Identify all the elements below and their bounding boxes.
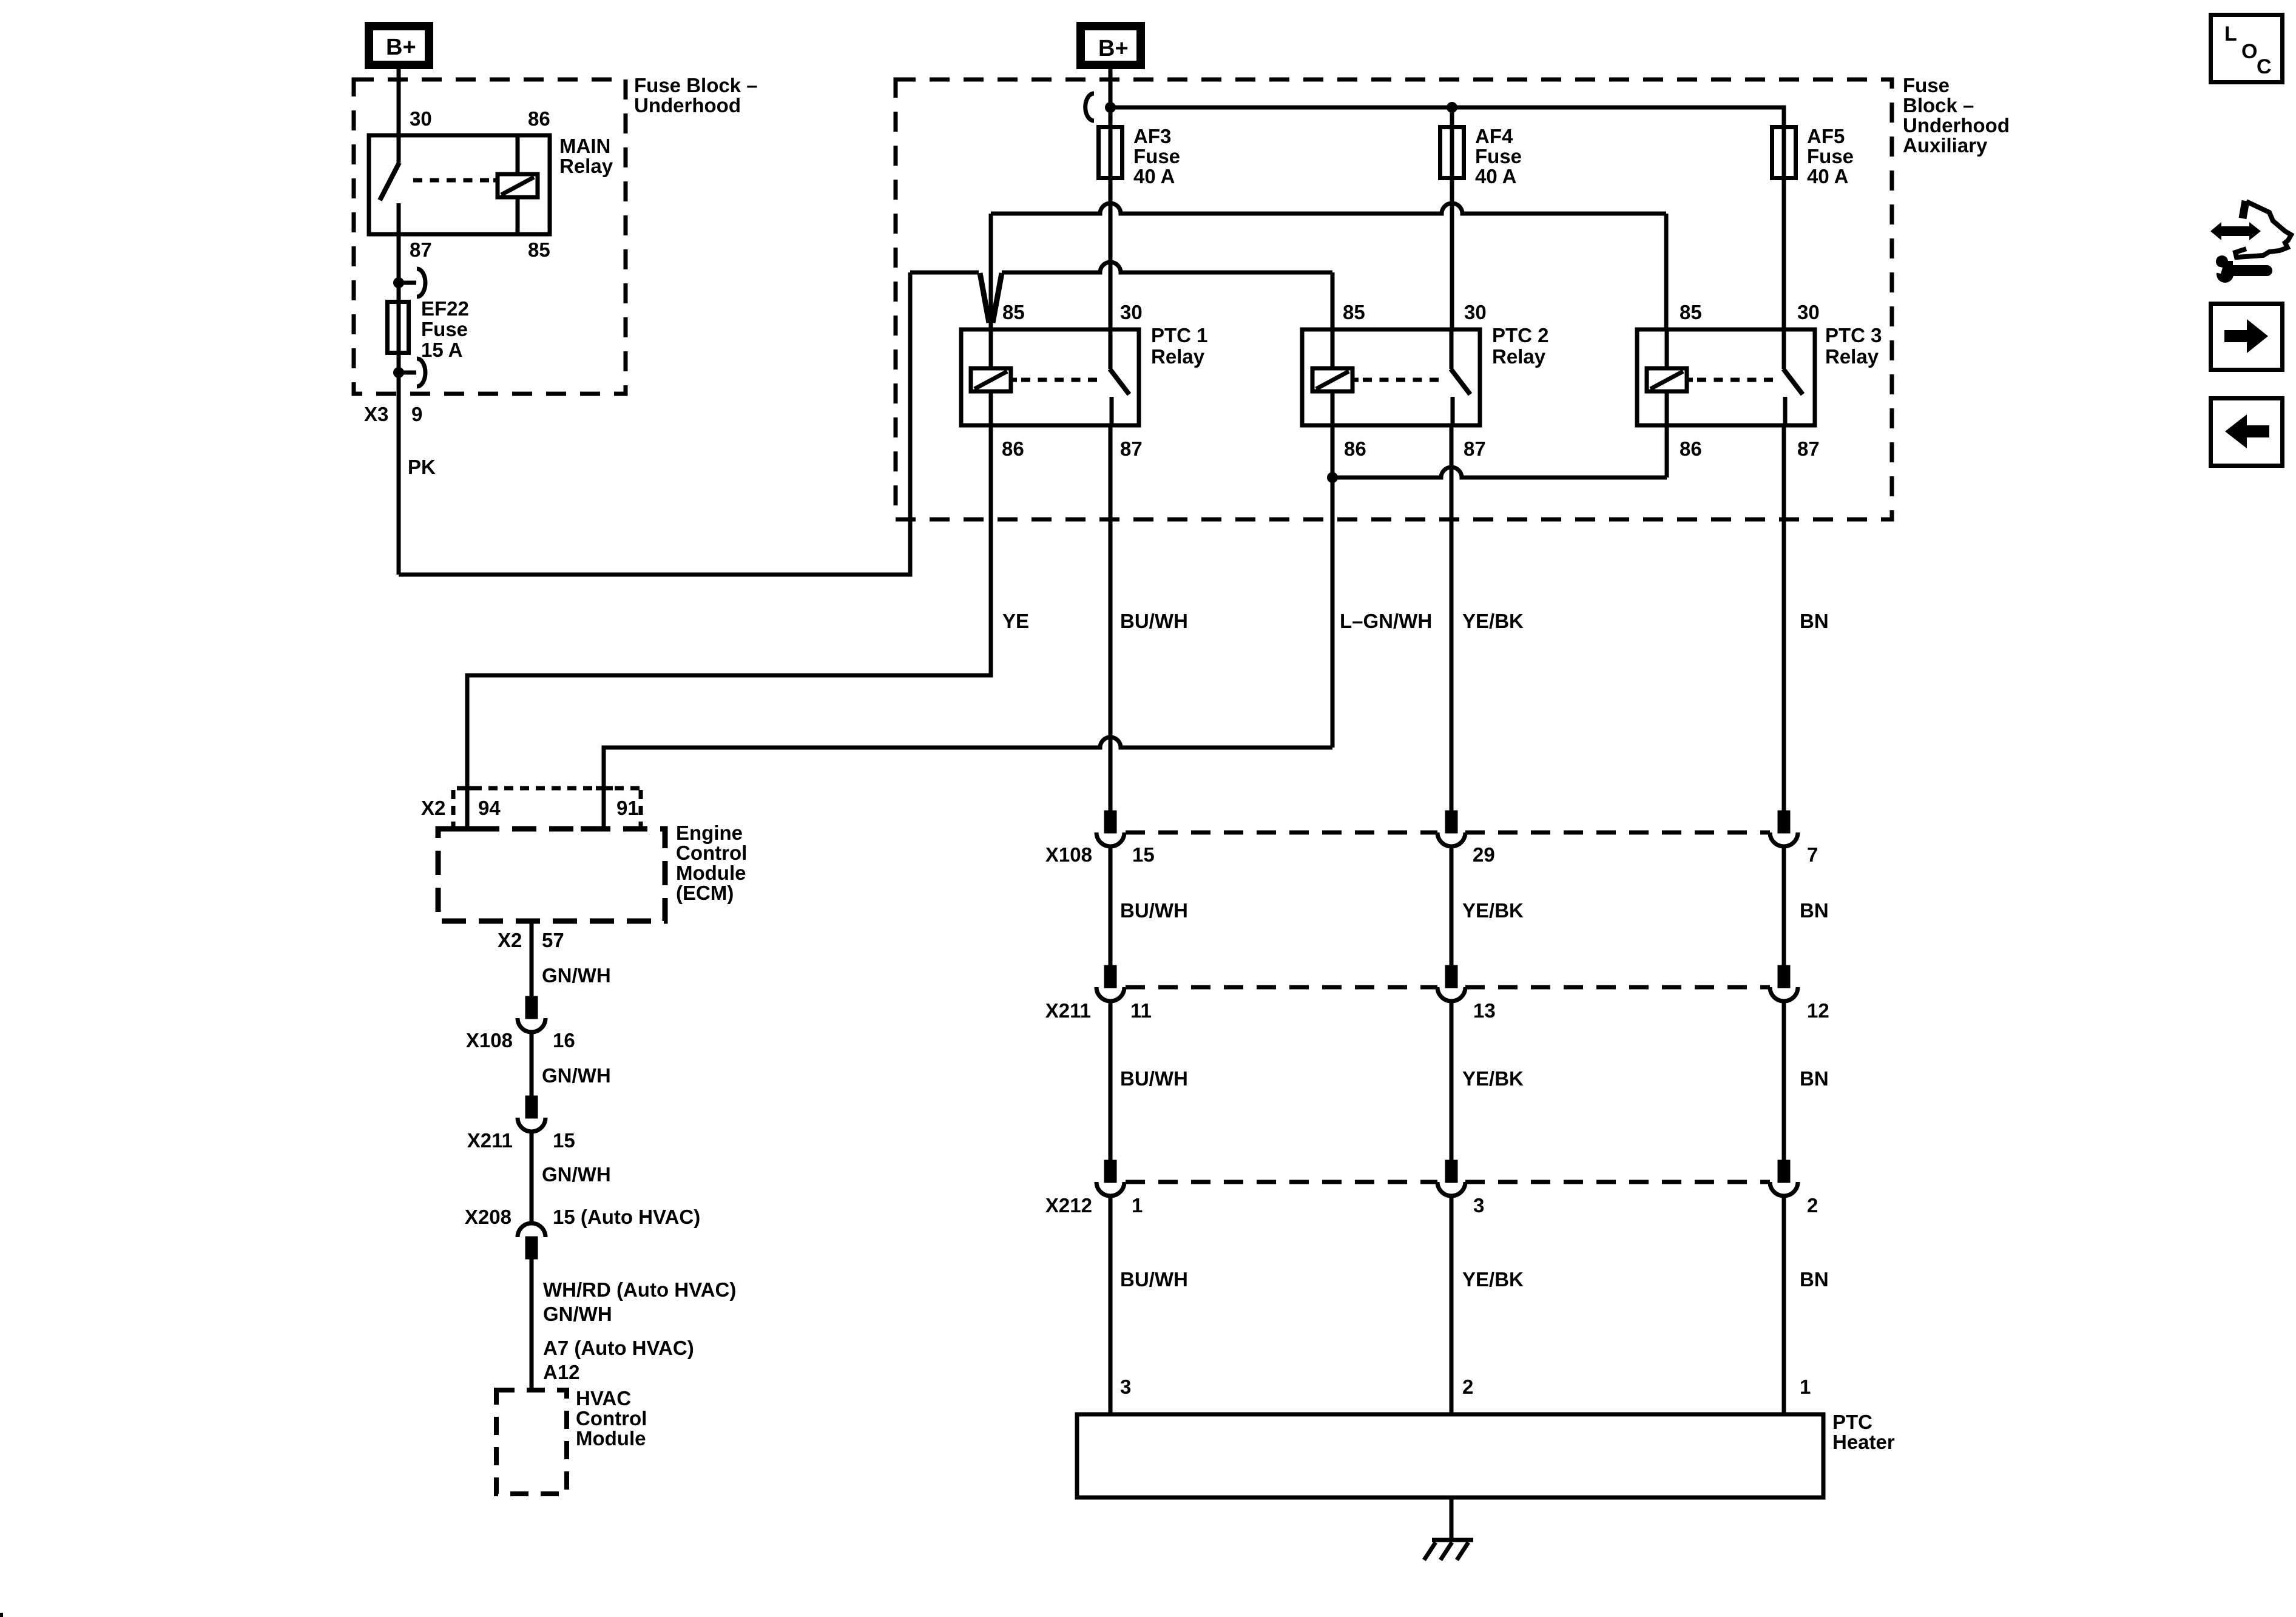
component-location icon: wrench notch — [2206, 264, 2223, 274]
svg-text:GN/WH: GN/WH — [542, 1064, 611, 1087]
pin 91 terminal ticks — [581, 788, 613, 829]
svg-text:B+: B+ — [1098, 36, 1129, 61]
svg-text:30: 30 — [1797, 301, 1820, 323]
svg-text:15 (Auto HVAC): 15 (Auto HVAC) — [553, 1206, 700, 1228]
svg-text:Auxiliary: Auxiliary — [1903, 134, 1988, 157]
svg-text:1: 1 — [1132, 1194, 1143, 1217]
svg-text:(ECM): (ECM) — [676, 882, 734, 904]
svg-text:PTC 1: PTC 1 — [1151, 324, 1208, 346]
relay PTC 2 (K3) switch — [1451, 329, 1470, 425]
svg-text:85: 85 — [528, 238, 550, 261]
component-location icon: part outline — [2235, 201, 2291, 257]
svg-text:BN: BN — [1800, 1268, 1829, 1291]
wire AF4 tap down — [1450, 107, 1454, 329]
Engine Control Module dashed box — [438, 829, 665, 921]
svg-text:40 A: 40 A — [1133, 165, 1175, 187]
wire BU/WH: PTC1-87 down to heater — [1109, 425, 1113, 813]
wire YE/BK: PTC2-87 down to heater — [1450, 425, 1454, 813]
fuse AF4 40A — [1440, 127, 1464, 178]
svg-text:9: 9 — [411, 403, 422, 425]
wire B+ to MAIN relay pin 30 — [397, 65, 401, 135]
svg-text:A12: A12 — [543, 1361, 580, 1383]
svg-text:Fuse: Fuse — [1807, 145, 1854, 167]
svg-text:1: 1 — [1800, 1376, 1811, 1398]
HVAC Control Module dashed box — [496, 1390, 567, 1494]
wire GN/WH to X208 — [530, 1132, 534, 1223]
page mark dot bottom-left — [0, 1613, 3, 1617]
svg-text:AF3: AF3 — [1133, 125, 1171, 147]
svg-text:Block –: Block – — [1903, 94, 1974, 116]
svg-text:X2: X2 — [498, 929, 522, 951]
svg-text:13: 13 — [1473, 999, 1496, 1022]
relay MAIN (K1) switch — [380, 135, 399, 234]
inline connector X211 pin 15 — [518, 1098, 545, 1132]
feed wire to AF4 and AF5 — [1110, 107, 1784, 329]
connector X212 pin 2 — [1770, 1162, 1798, 1196]
svg-text:AF4: AF4 — [1475, 125, 1513, 147]
svg-text:YE/BK: YE/BK — [1462, 899, 1524, 922]
svg-text:X108: X108 — [466, 1029, 513, 1052]
svg-text:X3: X3 — [364, 403, 388, 425]
svg-text:Underhood: Underhood — [1903, 114, 2010, 137]
svg-text:B+: B+ — [386, 35, 416, 60]
junction node at AF3 top — [1105, 102, 1116, 113]
component-location icon: double arrow — [2210, 222, 2261, 240]
svg-text:Fuse Block –: Fuse Block – — [634, 74, 758, 96]
svg-text:91: 91 — [616, 797, 639, 819]
svg-text:86: 86 — [1002, 437, 1024, 460]
svg-text:PTC: PTC — [1832, 1411, 1872, 1433]
svg-text:Relay: Relay — [559, 155, 613, 177]
svg-text:12: 12 — [1807, 999, 1829, 1022]
connector X211 pin 11 — [1096, 967, 1124, 1001]
relay PTC 1 (K2) coil — [971, 329, 1011, 425]
svg-text:X211: X211 — [467, 1129, 513, 1152]
svg-text:YE/BK: YE/BK — [1462, 1067, 1524, 1090]
svg-text:BN: BN — [1800, 899, 1829, 922]
connector X211 pin 12 — [1770, 967, 1798, 1001]
svg-text:Module: Module — [576, 1427, 646, 1450]
svg-text:YE: YE — [1002, 610, 1029, 632]
wire ECM 57 GN/WH — [530, 921, 534, 999]
connector X212 pin 3 — [1437, 1162, 1465, 1196]
svg-text:40 A: 40 A — [1475, 165, 1516, 187]
svg-text:HVAC: HVAC — [576, 1387, 631, 1409]
ground wire from heater — [1450, 1497, 1454, 1541]
svg-text:85: 85 — [1680, 301, 1702, 323]
PTC Heater box — [1077, 1414, 1823, 1497]
svg-text:BN: BN — [1800, 610, 1829, 632]
relay PTC 1 (K2) switch — [1110, 329, 1129, 425]
wires X211 to X212 — [1110, 1001, 1784, 1163]
link PTC2-86 to PTC3-86 (hops over PTC2-87 wire) — [1332, 467, 1667, 478]
svg-text:X212: X212 — [1045, 1194, 1092, 1217]
svg-text:Underhood: Underhood — [634, 94, 741, 116]
svg-text:30: 30 — [1120, 301, 1143, 323]
arrowhead into PTC1 pin 85 — [980, 273, 1002, 323]
relay MAIN (K1) coil — [498, 135, 538, 234]
Fuse Block - Underhood Auxiliary dashed box — [896, 79, 1892, 519]
B+ power symbol (middle) — [1081, 26, 1141, 65]
svg-text:86: 86 — [1680, 437, 1702, 460]
svg-text:86: 86 — [528, 107, 550, 130]
junction node above EF22 — [393, 277, 404, 288]
svg-text:7: 7 — [1807, 843, 1818, 866]
LOC reference box icon — [2211, 15, 2283, 83]
wire MAIN relay 87 to fuse EF22 — [397, 234, 401, 575]
relay PTC 2 (K3) coil — [1312, 329, 1352, 425]
svg-text:87: 87 — [1797, 437, 1820, 460]
svg-text:WH/RD (Auto HVAC): WH/RD (Auto HVAC) — [543, 1278, 736, 1301]
svg-text:Module: Module — [676, 862, 746, 884]
svg-text:Relay: Relay — [1151, 345, 1205, 368]
relay PTC 2 (K3) coil-switch link — [1352, 378, 1442, 382]
svg-text:40 A: 40 A — [1807, 165, 1848, 187]
svg-text:15 A: 15 A — [421, 339, 462, 361]
wire PTC3-86 stub — [1665, 425, 1669, 478]
connector X108 pin 15 — [1096, 812, 1124, 846]
svg-text:15: 15 — [1132, 843, 1155, 866]
svg-text:57: 57 — [542, 929, 564, 951]
X212 connector row dashed line — [1126, 1180, 1770, 1184]
svg-text:Engine: Engine — [676, 822, 743, 844]
svg-text:X208: X208 — [465, 1206, 512, 1228]
relay MAIN (K1) coil-switch link — [407, 178, 499, 183]
B+ power symbol (left) — [369, 26, 429, 65]
wire GN/WH to X211 — [530, 1032, 534, 1098]
svg-text:X2: X2 — [421, 797, 445, 819]
connector X108 pin 7 — [1770, 812, 1798, 846]
fuse EF22 15A — [388, 302, 409, 353]
svg-text:GN/WH: GN/WH — [542, 1163, 611, 1186]
relay box MAIN (K1) — [369, 135, 550, 234]
svg-text:YE/BK: YE/BK — [1462, 1268, 1524, 1291]
svg-text:Control: Control — [676, 842, 747, 864]
wire PK horizontal run — [399, 272, 910, 575]
svg-text:BU/WH: BU/WH — [1120, 899, 1188, 922]
inline connector X208 pin 15 — [518, 1223, 545, 1257]
ECM X2 pin row dashed strip — [453, 788, 643, 827]
wire from ECM pin 91 to PTC2-86 (hops over BU/WH wire) — [604, 737, 1332, 829]
svg-text:GN/WH: GN/WH — [543, 1303, 612, 1325]
svg-text:O: O — [2241, 40, 2257, 63]
relay PTC 3 (K4) coil — [1647, 329, 1687, 425]
svg-text:L–GN/WH: L–GN/WH — [1340, 610, 1432, 632]
svg-text:X108: X108 — [1045, 843, 1092, 866]
wire B+ down to AF3 fuse — [1109, 65, 1113, 329]
svg-text:X211: X211 — [1045, 999, 1091, 1022]
wires X108 to X211 — [1110, 846, 1784, 968]
connector X211 pin 13 — [1437, 967, 1465, 1001]
svg-text:L: L — [2224, 22, 2237, 46]
wire down to PTC1 pin 85 — [989, 214, 993, 329]
svg-text:2: 2 — [1462, 1376, 1473, 1398]
svg-text:85: 85 — [1343, 301, 1365, 323]
Fuse Block - Underhood dashed box — [354, 79, 626, 394]
wire BN: PTC3-87 down to heater — [1782, 425, 1786, 813]
svg-text:BN: BN — [1800, 1067, 1829, 1090]
wires X212 to PTC heater — [1110, 1196, 1784, 1414]
svg-text:YE/BK: YE/BK — [1462, 610, 1524, 632]
junction node below EF22 — [393, 367, 404, 378]
svg-text:AF5: AF5 — [1807, 125, 1845, 147]
connector X212 pin 1 — [1096, 1162, 1124, 1196]
svg-text:87: 87 — [410, 238, 432, 261]
svg-text:C: C — [2257, 55, 2272, 78]
inline connector X108 pin 16 — [518, 998, 545, 1032]
svg-text:30: 30 — [1464, 301, 1487, 323]
svg-text:Fuse: Fuse — [1475, 145, 1522, 167]
svg-text:87: 87 — [1464, 437, 1486, 460]
component-location icon: wrench — [2216, 255, 2272, 283]
svg-text:A7 (Auto HVAC): A7 (Auto HVAC) — [543, 1337, 694, 1359]
svg-text:Fuse: Fuse — [1133, 145, 1180, 167]
svg-text:Fuse: Fuse — [421, 318, 468, 340]
svg-text:Control: Control — [576, 1407, 647, 1430]
back arrow glyph — [2225, 414, 2269, 448]
wire down to PTC2 pin 85 — [1331, 272, 1335, 329]
svg-text:BU/WH: BU/WH — [1120, 1268, 1188, 1291]
svg-text:2: 2 — [1807, 1194, 1818, 1217]
svg-text:29: 29 — [1473, 843, 1495, 866]
coil feed bus to PTC1-85 and PTC3-85 (hops over AF3, AF4 wires) — [991, 203, 1666, 214]
svg-text:94: 94 — [478, 797, 501, 819]
wire to HVAC Control Module — [530, 1258, 534, 1390]
svg-text:15: 15 — [553, 1129, 575, 1152]
forward arrow glyph — [2224, 319, 2268, 353]
connector stub arc above EF22 — [399, 269, 425, 297]
svg-text:86: 86 — [1344, 437, 1366, 460]
back arrow box icon — [2211, 399, 2283, 466]
svg-text:Relay: Relay — [1492, 345, 1546, 368]
fuse AF5 40A — [1772, 127, 1796, 178]
svg-text:85: 85 — [1002, 301, 1025, 323]
junction node at AF4 top — [1447, 102, 1457, 113]
svg-text:PTC 2: PTC 2 — [1492, 324, 1549, 346]
svg-text:PK: PK — [408, 456, 436, 478]
connector X108 pin 29 — [1437, 812, 1465, 846]
svg-text:11: 11 — [1130, 999, 1152, 1022]
pin 94 terminal ticks — [458, 788, 484, 829]
relay box PTC 3 (K4) — [1637, 329, 1815, 425]
junction node PTC2-86 — [1327, 472, 1338, 483]
feed splice arc at B+ — [1086, 93, 1094, 121]
X108 connector row dashed line — [1126, 831, 1770, 835]
wire PTC2-86 down with junction — [1331, 425, 1335, 748]
wire YE: PTC1-86 down to ECM pin 94 — [467, 425, 991, 829]
ground symbol — [1424, 1540, 1473, 1560]
component-location icon: stroke — [2243, 201, 2246, 218]
fuse AF3 40A — [1099, 127, 1123, 178]
svg-text:Fuse: Fuse — [1903, 74, 1950, 96]
svg-text:GN/WH: GN/WH — [542, 964, 611, 987]
svg-text:BU/WH: BU/WH — [1120, 610, 1188, 632]
relay box PTC 2 (K3) — [1302, 329, 1480, 425]
svg-text:Heater: Heater — [1832, 1431, 1895, 1453]
forward arrow box icon — [2211, 304, 2283, 370]
relay PTC 3 (K4) coil-switch link — [1687, 378, 1775, 382]
svg-text:MAIN: MAIN — [559, 135, 610, 157]
svg-text:Relay: Relay — [1825, 345, 1879, 368]
relay PTC 1 (K2) coil-switch link — [1011, 378, 1101, 382]
svg-text:3: 3 — [1120, 1376, 1131, 1398]
connector stub arc below EF22 — [399, 359, 425, 387]
X211 connector row dashed line — [1126, 985, 1770, 990]
coil feed bus from PK to PTC2-85 (hops over AF3 wire) — [910, 262, 1332, 272]
svg-text:87: 87 — [1120, 437, 1143, 460]
svg-text:3: 3 — [1473, 1194, 1484, 1217]
svg-text:30: 30 — [410, 107, 432, 130]
svg-text:EF22: EF22 — [421, 297, 469, 320]
svg-text:BU/WH: BU/WH — [1120, 1067, 1188, 1090]
svg-text:PTC 3: PTC 3 — [1825, 324, 1882, 346]
wire down to PTC3 pin 85 — [1664, 214, 1669, 329]
relay PTC 3 (K4) switch — [1783, 329, 1803, 425]
svg-text:16: 16 — [553, 1029, 575, 1052]
relay box PTC 1 (K2) — [961, 329, 1139, 425]
